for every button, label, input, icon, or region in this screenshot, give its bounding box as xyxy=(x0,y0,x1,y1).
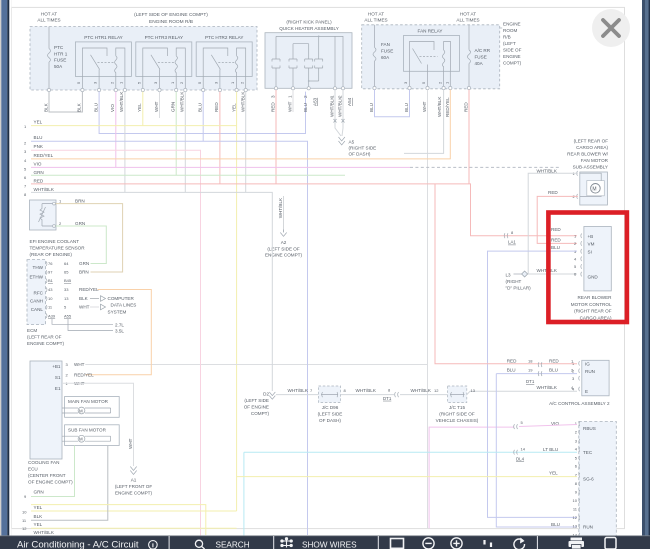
label WHT/BLK 7 xyxy=(288,388,314,393)
icon zoom-in xyxy=(451,538,462,549)
svg-text:TEMPERATURE SENSOR: TEMPERATURE SENSOR xyxy=(30,246,86,251)
component A/C CONTROL ASSEMBLY 2 xyxy=(549,360,610,406)
node COMPUTER DATA LINES SYSTEM xyxy=(101,296,137,315)
svg-text:10: 10 xyxy=(573,498,578,503)
wire RED quick heater pin3 to bus row7 xyxy=(275,90,277,184)
label BLU 13 xyxy=(551,522,560,527)
svg-text:(LEFT SIDE OF ENGINE COMPT): (LEFT SIDE OF ENGINE COMPT) xyxy=(134,12,208,18)
svg-text:RED: RED xyxy=(34,178,44,183)
svg-text:THW: THW xyxy=(33,265,44,270)
junction block J/C T15 xyxy=(436,386,479,423)
svg-text:50A: 50A xyxy=(54,64,63,69)
fan block connector circles xyxy=(373,86,471,89)
svg-text:12: 12 xyxy=(573,515,578,520)
wire VIO to pin1 xyxy=(519,425,577,427)
svg-text:PTC HTR1 RELAY: PTC HTR1 RELAY xyxy=(84,35,122,40)
wire BLK ECM to computer data lines xyxy=(90,298,99,300)
svg-text:DT1: DT1 xyxy=(383,396,392,401)
svg-text:VM: VM xyxy=(588,242,595,247)
svg-text:OF ENGINE: OF ENGINE xyxy=(244,405,269,410)
svg-text:(CENTER FRONT: (CENTER FRONT xyxy=(28,473,66,478)
svg-text:DT1: DT1 xyxy=(526,379,535,384)
svg-text:SHOW WIRES: SHOW WIRES xyxy=(302,541,357,549)
relay PTC HTR1 RELAY xyxy=(75,35,131,76)
svg-text:CARGO AREA): CARGO AREA) xyxy=(576,145,608,150)
node HOT AT ALL TIMES (left) xyxy=(37,12,60,23)
svg-text:19: 19 xyxy=(528,368,533,373)
svg-text:BLU: BLU xyxy=(549,368,558,373)
wire WHT ecu E1 to A1 ground xyxy=(62,383,134,466)
wire GRN sensor pin2 to ECM xyxy=(56,226,107,264)
svg-text:BLK: BLK xyxy=(79,296,89,301)
wire VIO row5 dashed xyxy=(410,166,561,168)
svg-text:PNK: PNK xyxy=(34,144,44,149)
svg-text:WHT/BLK: WHT/BLK xyxy=(537,385,558,390)
component REAR BLOWER W/ FAN MOTOR SUB-ASSEMBLY xyxy=(567,139,609,205)
wire RED/YEL fan relay pin1 down xyxy=(449,90,451,159)
svg-text:GND: GND xyxy=(588,275,599,280)
label WHT/BLK 4 E xyxy=(537,385,575,390)
svg-text:VIO: VIO xyxy=(34,161,42,166)
wire YEL relay3 pin5 to bus row1 xyxy=(142,92,144,126)
bus row 8 WHT/BLK xyxy=(24,187,55,197)
svg-text:BLU: BLU xyxy=(369,103,374,112)
svg-text:2: 2 xyxy=(338,95,343,98)
wire BLU relay1 pin3 to quick heater xyxy=(99,92,305,134)
wire BLU fan fuse U-loop to relay pin3 xyxy=(375,90,410,117)
svg-text:M: M xyxy=(592,186,596,192)
svg-text:FUSE: FUSE xyxy=(475,55,487,60)
icon zoom-out xyxy=(423,538,434,549)
wire YEL relay2 pin1 long down xyxy=(236,92,238,511)
svg-text:J/C T15: J/C T15 xyxy=(449,405,465,410)
svg-text:BLU: BLU xyxy=(507,368,516,373)
svg-text:RED/YEL: RED/YEL xyxy=(34,153,54,158)
svg-text:A55: A55 xyxy=(64,314,72,319)
svg-text:WHT/BLK: WHT/BLK xyxy=(437,96,442,117)
svg-text:FUSE: FUSE xyxy=(381,49,393,54)
svg-text:CANH: CANH xyxy=(30,299,43,304)
svg-text:E1: E1 xyxy=(55,386,61,391)
wire YEL row12 xyxy=(31,527,237,529)
fuse A/C RR FUSE 40A xyxy=(468,25,491,88)
svg-text:WHT/BLK: WHT/BLK xyxy=(411,388,432,393)
svg-text:+B: +B xyxy=(588,234,594,239)
icon printer xyxy=(569,538,585,549)
svg-text:M: M xyxy=(79,408,83,413)
svg-text:A53: A53 xyxy=(313,97,318,106)
wire WHT relay3 pin3 xyxy=(159,92,161,118)
svg-text:GRN: GRN xyxy=(79,261,89,266)
svg-text:A2: A2 xyxy=(281,240,287,245)
svg-text:LT BLU: LT BLU xyxy=(543,447,558,452)
svg-text:ECM: ECM xyxy=(27,328,37,333)
wire WHT/BLK fan relay pin2 to E row xyxy=(404,90,444,154)
svg-text:YEL: YEL xyxy=(34,505,43,510)
svg-text:YEL: YEL xyxy=(34,522,43,527)
svg-text:1: 1 xyxy=(288,95,293,98)
svg-text:OF DASH): OF DASH) xyxy=(349,152,371,157)
heater element 3 xyxy=(305,44,313,89)
wire WHT quick heater pin1 xyxy=(292,90,294,112)
svg-text:RED: RED xyxy=(464,102,469,112)
svg-text:COMPUTER: COMPUTER xyxy=(108,296,135,301)
relay pin stubs (left block) xyxy=(82,76,245,90)
svg-text:BLU: BLU xyxy=(551,245,560,250)
svg-text:PTC HTR2 RELAY: PTC HTR2 RELAY xyxy=(205,35,243,40)
svg-text:WHT: WHT xyxy=(422,101,427,112)
wire WHT/BLK relay3 pin2 to bus row8 xyxy=(184,92,186,193)
wire WHT/BLK chain T15 to E pin xyxy=(467,391,577,394)
wire WHT ECM to computer data lines xyxy=(90,306,99,308)
svg-text:BLU: BLU xyxy=(551,522,560,527)
svg-text:ENGINE: ENGINE xyxy=(503,22,521,27)
bus row 10 YEL xyxy=(22,505,43,514)
svg-text:VIO: VIO xyxy=(110,104,115,112)
wire WHT/BLK row8 to D2 xyxy=(31,192,272,391)
svg-text:RED/YEL: RED/YEL xyxy=(74,372,94,377)
svg-text:A/C CONTROL ASSEMBLY 2: A/C CONTROL ASSEMBLY 2 xyxy=(549,401,610,406)
svg-text:10: 10 xyxy=(22,509,27,514)
svg-text:COMPT): COMPT) xyxy=(251,411,270,416)
bus row 1 YEL xyxy=(24,120,43,129)
svg-text:(RIGHT REAR OF: (RIGHT REAR OF xyxy=(574,309,612,314)
separator xyxy=(169,536,170,549)
svg-text:(LEFT REAR OF: (LEFT REAR OF xyxy=(27,335,62,340)
motor SUB FAN MOTOR xyxy=(62,425,119,446)
connector circles at R/B edge xyxy=(47,88,247,91)
svg-text:A1: A1 xyxy=(131,478,137,483)
svg-text:OF DASH): OF DASH) xyxy=(319,418,341,423)
svg-text:HTR 1: HTR 1 xyxy=(54,51,68,56)
component EFI ENGINE COOLANT TEMPERATURE SENSOR xyxy=(30,199,86,258)
svg-text:64: 64 xyxy=(64,261,69,266)
svg-text:FAN RELAY: FAN RELAY xyxy=(418,29,443,34)
svg-text:(LEFT SIDE: (LEFT SIDE xyxy=(318,412,343,417)
fuse PTC HTR 1 FUSE 50A xyxy=(48,27,68,91)
svg-text:PTC: PTC xyxy=(54,45,64,50)
svg-text:MOTOR CONTROL: MOTOR CONTROL xyxy=(571,302,612,307)
svg-text:2.7L: 2.7L xyxy=(115,322,124,327)
svg-text:BRN: BRN xyxy=(75,199,85,204)
svg-text:S1: S1 xyxy=(55,375,61,380)
svg-text:Air Conditioning - A/C Circuit: Air Conditioning - A/C Circuit xyxy=(17,540,139,549)
wire YEL SG-6 xyxy=(237,476,577,478)
svg-text:IG: IG xyxy=(585,361,590,366)
svg-text:40A: 40A xyxy=(475,61,484,66)
svg-text:(RIGHT SIDE OF: (RIGHT SIDE OF xyxy=(439,412,475,417)
wire RED IG row xyxy=(435,184,577,364)
component QUICK HEATER ASSEMBLY xyxy=(265,20,352,90)
svg-text:WHT: WHT xyxy=(154,101,159,112)
svg-text:HOT AT: HOT AT xyxy=(41,12,57,17)
svg-text:DATA LINES: DATA LINES xyxy=(111,303,137,308)
svg-text:GRN: GRN xyxy=(34,490,44,495)
connector marks quick heater WHT/BLK xyxy=(334,119,345,123)
svg-text:ALL TIMES: ALL TIMES xyxy=(37,18,60,23)
svg-text:E: E xyxy=(585,389,588,394)
svg-text:18: 18 xyxy=(528,359,533,364)
right sidebar xyxy=(642,0,650,549)
wire RED relay2 pin3 to bus row7 xyxy=(219,92,221,184)
component REAR BLOWER MOTOR CONTROL xyxy=(571,227,612,321)
svg-text:RED/YEL: RED/YEL xyxy=(79,287,99,292)
computer COOLING FAN ECU xyxy=(28,361,94,485)
wire VIO drop to RBUS xyxy=(429,427,513,528)
svg-text:RED: RED xyxy=(548,190,558,195)
svg-text:WHT: WHT xyxy=(288,101,293,112)
svg-text:BLU: BLU xyxy=(198,103,203,112)
svg-text:YEL: YEL xyxy=(137,103,142,112)
svg-text:(LEFT SIDE: (LEFT SIDE xyxy=(244,398,269,403)
fan relay pin numbers xyxy=(403,81,449,84)
svg-text:(RIGHT KICK PANEL): (RIGHT KICK PANEL) xyxy=(286,20,332,25)
svg-text:ETHW: ETHW xyxy=(29,274,43,279)
svg-text:ENGINE COMPT): ENGINE COMPT) xyxy=(115,491,152,496)
svg-text:RFC: RFC xyxy=(34,291,44,296)
svg-text:RUN: RUN xyxy=(583,525,593,530)
svg-text:BLU: BLU xyxy=(34,135,43,140)
svg-text:WHT: WHT xyxy=(74,362,85,367)
wire VIO relay1 pin2 to bus row5 xyxy=(115,92,117,168)
svg-text:B45: B45 xyxy=(64,278,72,283)
bus row 11 BLK xyxy=(22,514,43,523)
svg-text:SUB FAN MOTOR: SUB FAN MOTOR xyxy=(68,427,107,432)
left sidebar xyxy=(0,0,1,549)
separator xyxy=(537,536,538,549)
wire labels into control xyxy=(551,227,561,250)
svg-text:YEL: YEL xyxy=(549,470,558,475)
label 8 WHT/BLK xyxy=(344,388,377,393)
wire VIO row5 xyxy=(31,166,410,168)
svg-text:VEHICLE CHASSIS): VEHICLE CHASSIS) xyxy=(436,418,479,423)
connector 14 DL4 xyxy=(514,446,558,461)
svg-text:BLK: BLK xyxy=(43,102,48,112)
wire BRN sensor pin1 to ECM xyxy=(56,204,123,272)
svg-text:L3: L3 xyxy=(506,273,512,278)
junction block ENGINE ROOM R/B (right) xyxy=(362,25,500,89)
svg-text:WHT: WHT xyxy=(128,438,133,449)
bus row 12 YEL xyxy=(22,522,43,531)
svg-text:MAIN FAN MOTOR: MAIN FAN MOTOR xyxy=(68,399,109,404)
svg-text:14: 14 xyxy=(521,446,526,451)
wire GRN relay3 pin1 to bus row6 xyxy=(175,92,177,176)
svg-text:RED/YEL: RED/YEL xyxy=(445,97,450,117)
node HOT AT ALL TIMES (ac rr fuse) xyxy=(456,12,479,23)
wire WHT/BLK to A2 xyxy=(283,196,285,232)
svg-text:WHT/BLK: WHT/BLK xyxy=(240,91,245,112)
icon share xyxy=(514,538,525,549)
wire BLU row2 xyxy=(31,141,308,535)
svg-text:(REAR OF ENGINE): (REAR OF ENGINE) xyxy=(30,252,73,257)
svg-text:J/C D96: J/C D96 xyxy=(322,405,339,410)
wire WHT/BLK chain D96 to DT1 xyxy=(341,394,395,396)
svg-text:FAN: FAN xyxy=(381,42,390,47)
svg-text:REAR BLOWER: REAR BLOWER xyxy=(578,295,613,300)
svg-text:13: 13 xyxy=(64,296,69,301)
wire WHT fan relay pin5 to cooling fan ecu xyxy=(85,90,427,529)
junction block lower right (heater control) xyxy=(573,421,617,549)
relay FAN RELAY xyxy=(404,29,460,72)
svg-text:WHT/BLK: WHT/BLK xyxy=(34,530,55,535)
svg-text:RED: RED xyxy=(214,102,219,112)
svg-text:ENGINE ROOM R/B: ENGINE ROOM R/B xyxy=(149,19,193,25)
fan wire labels xyxy=(369,96,469,117)
svg-text:(RIGHT: (RIGHT xyxy=(506,279,522,284)
svg-text:(RIGHT SIDE: (RIGHT SIDE xyxy=(349,146,377,151)
svg-text:3.5L: 3.5L xyxy=(115,329,124,334)
svg-text:WHT/BLK: WHT/BLK xyxy=(356,388,377,393)
connector 19 xyxy=(507,368,574,385)
svg-text:BLU: BLU xyxy=(404,103,409,112)
wire WHT/BLK relay1 pin1 to bus row8 xyxy=(124,92,126,193)
svg-text:A5: A5 xyxy=(349,140,355,145)
ground D2 xyxy=(244,392,276,417)
wire WHT/BLK chain D2 to D96 xyxy=(276,394,319,396)
pin numbers (left block) xyxy=(76,81,244,84)
bus row 5 VIO xyxy=(24,161,42,171)
heater top bus wires xyxy=(276,36,343,88)
connector 18 xyxy=(507,359,574,368)
heater element 1 xyxy=(272,36,280,88)
svg-text:M: M xyxy=(79,437,83,442)
connector 5 VIO xyxy=(514,420,560,429)
svg-text:TEC: TEC xyxy=(583,450,593,455)
heater element 4 xyxy=(315,36,323,81)
bus row 6 GRN xyxy=(24,170,44,180)
ground L3 xyxy=(506,271,532,291)
icon info xyxy=(149,541,158,549)
bus row 9 GRN xyxy=(24,490,44,499)
wire RED ac rr fuse to bus row7 xyxy=(468,90,470,184)
computer ECM xyxy=(27,260,99,346)
svg-text:COMPT): COMPT) xyxy=(503,61,522,66)
svg-text:10: 10 xyxy=(48,296,53,301)
bus row 2 BLU xyxy=(24,135,42,145)
svg-text:PTC HTR3 RELAY: PTC HTR3 RELAY xyxy=(145,35,183,40)
svg-text:ALL TIMES: ALL TIMES xyxy=(456,18,479,23)
svg-text:BLK: BLK xyxy=(77,102,82,112)
svg-text:SIDE OF: SIDE OF xyxy=(503,48,522,53)
ground A2 xyxy=(265,197,302,258)
svg-text:YEL: YEL xyxy=(231,103,236,112)
wire WHT/BLK relay2 pin2 to bus row8 xyxy=(245,92,247,193)
label ENGINE ROOM R/B (right side) xyxy=(500,22,522,66)
wire YEL row10 xyxy=(31,510,237,512)
wire RED row7 to LA1 and +B xyxy=(31,184,577,236)
svg-text:RED: RED xyxy=(507,359,517,364)
svg-text:WHT/BLK: WHT/BLK xyxy=(180,91,185,112)
svg-text:REAR BLOWER W/: REAR BLOWER W/ xyxy=(567,152,609,157)
svg-text:CARGO AREA): CARGO AREA) xyxy=(580,315,612,320)
wire YEL row1 xyxy=(31,125,237,127)
icon fit-screen xyxy=(391,539,404,549)
wire BLU relay2 pin5 to bus row2 xyxy=(202,92,204,142)
svg-text:ENGINE: ENGINE xyxy=(503,54,521,59)
svg-text:(LEFT: (LEFT xyxy=(503,41,516,46)
svg-text:SUB-ASSEMBLY: SUB-ASSEMBLY xyxy=(573,165,608,170)
svg-text:SEARCH: SEARCH xyxy=(216,541,250,549)
wire RED/YEL ECM RFC to cooling fan ecu xyxy=(85,290,151,375)
heater pins xyxy=(274,87,344,90)
svg-text:WHT/BLK: WHT/BLK xyxy=(537,169,558,174)
svg-text:76: 76 xyxy=(48,261,53,266)
connector DT1 xyxy=(383,388,399,401)
junction block J/C D96 xyxy=(318,386,343,423)
icon search xyxy=(195,540,204,549)
svg-text:(LEFT FRONT OF: (LEFT FRONT OF xyxy=(115,484,153,489)
connector LA1 xyxy=(504,230,516,245)
ground A1 xyxy=(115,467,153,496)
ground A5 xyxy=(339,137,377,157)
wire LT BLU row xyxy=(244,452,577,536)
wire labels below left block xyxy=(43,91,245,112)
separator xyxy=(378,536,379,549)
svg-text:+B1: +B1 xyxy=(52,364,61,369)
wire labels quick heater xyxy=(271,95,353,117)
svg-text:WHT/BLK: WHT/BLK xyxy=(34,187,55,192)
svg-text:A/C RR: A/C RR xyxy=(475,48,491,53)
svg-text:DL4: DL4 xyxy=(516,457,525,462)
svg-text:BLU: BLU xyxy=(93,103,98,112)
svg-text:2: 2 xyxy=(303,95,308,98)
svg-text:A54: A54 xyxy=(347,97,352,106)
bottom toolbar xyxy=(0,536,650,549)
svg-text:SYSTEM: SYSTEM xyxy=(108,309,127,314)
svg-text:RED: RED xyxy=(271,102,276,112)
svg-text:ALL TIMES: ALL TIMES xyxy=(364,18,387,23)
svg-text:A39: A39 xyxy=(48,314,56,319)
svg-text:RED: RED xyxy=(549,359,559,364)
bus row 4 RED/YEL xyxy=(24,153,54,163)
svg-text:ENGINE COMPT): ENGINE COMPT) xyxy=(27,341,64,346)
svg-text:HOT AT: HOT AT xyxy=(368,12,384,17)
svg-text:HOT AT: HOT AT xyxy=(460,12,476,17)
svg-text:B1: B1 xyxy=(48,278,54,283)
svg-text:65: 65 xyxy=(64,270,69,275)
svg-text:FUSE: FUSE xyxy=(54,58,66,63)
icon wires xyxy=(281,538,292,548)
svg-text:60A: 60A xyxy=(381,55,390,60)
svg-text:D2: D2 xyxy=(263,392,269,397)
wire PNK row3 long xyxy=(31,150,201,536)
svg-text:97: 97 xyxy=(48,270,53,275)
svg-text:WHT/BLK: WHT/BLK xyxy=(288,388,309,393)
svg-text:RBUS: RBUS xyxy=(583,426,596,431)
heater element 2 xyxy=(289,44,297,89)
wire WHT/BLK motor pin1 to L3 path xyxy=(528,173,578,274)
svg-text:ENGINE COMPT): ENGINE COMPT) xyxy=(265,253,302,258)
heater bottom join xyxy=(309,80,319,82)
svg-text:CANL: CANL xyxy=(31,307,44,312)
wire WHT/BLK chain DT1 to T15 xyxy=(400,394,448,396)
svg-text:BLK: BLK xyxy=(34,514,44,519)
relay PTC HTR2 RELAY xyxy=(196,35,252,76)
separator xyxy=(273,536,274,549)
node HOT AT ALL TIMES (fan fuse) xyxy=(364,12,387,23)
wire BLK row11 xyxy=(31,446,108,521)
svg-text:43: 43 xyxy=(48,287,53,292)
bus row 3 PNK xyxy=(24,144,44,154)
wire to 2.7L 3.5L xyxy=(52,319,124,334)
relay PTC HTR3 RELAY xyxy=(136,35,192,76)
svg-text:WHT/BLK: WHT/BLK xyxy=(278,197,283,218)
label WHT/BLK 12 xyxy=(411,388,440,393)
svg-text:GRN: GRN xyxy=(171,102,176,112)
svg-text:RUN: RUN xyxy=(585,369,595,374)
svg-text:BRN: BRN xyxy=(79,270,89,275)
svg-text:YEL: YEL xyxy=(34,120,43,125)
